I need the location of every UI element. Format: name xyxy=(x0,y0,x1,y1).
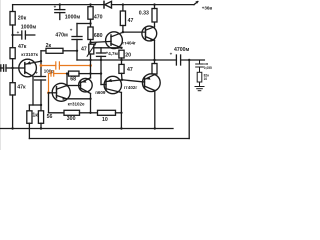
node 100p left xyxy=(40,64,43,67)
capacitor 1000m left xyxy=(13,30,35,39)
resistor 470 xyxy=(88,5,93,27)
node mid vertical xyxy=(100,72,102,74)
svg-text:1к: 1к xyxy=(32,113,38,119)
resistor 68 xyxy=(69,71,91,76)
wire base VT5 xyxy=(101,84,106,86)
svg-text:47к: 47к xyxy=(17,85,26,91)
wire emitter node vertical xyxy=(40,51,42,77)
capacitor 100p second xyxy=(49,71,68,93)
transistor VT3 kt3102e xyxy=(52,83,70,101)
node output rail r20 xyxy=(120,59,122,61)
wire mid node down xyxy=(100,60,102,85)
svg-text:100p: 100p xyxy=(44,68,55,73)
wire emitter VT3 xyxy=(67,98,91,100)
svg-text:56: 56 xyxy=(47,114,53,120)
wire collector VT4 down xyxy=(90,94,92,113)
ground symbol xyxy=(195,87,204,91)
capacitor input xyxy=(4,65,13,71)
zobel network xyxy=(196,60,204,87)
resistor 20k xyxy=(10,5,15,48)
svg-text:+: + xyxy=(17,30,20,35)
transistor VT6 gt404g right xyxy=(142,26,157,42)
svg-text:п609: п609 xyxy=(95,90,106,95)
node collector VT2 xyxy=(122,31,124,33)
svg-text:1000м: 1000м xyxy=(21,24,37,30)
node gnd 56 xyxy=(40,127,42,129)
wire collector VT6 xyxy=(154,22,156,27)
transistor VT7 gt402g right xyxy=(142,74,160,92)
diode VD1 xyxy=(104,1,112,8)
svg-text:300: 300 xyxy=(67,116,76,122)
node emitter VT5 xyxy=(121,79,123,81)
svg-text:47: 47 xyxy=(128,18,134,24)
trimmer 47 xyxy=(87,43,96,60)
wire base VT2 xyxy=(91,41,112,42)
node emitter VT1 xyxy=(40,60,42,62)
supply arrow +36v xyxy=(194,1,199,5)
node collector VT3 xyxy=(66,84,68,86)
wire top rail right segment xyxy=(112,4,195,6)
wire emitter VT6 xyxy=(154,40,156,60)
svg-text:кт3107к: кт3107к xyxy=(21,52,38,57)
wire wiper xyxy=(94,47,122,49)
node bias top xyxy=(11,34,13,36)
svg-text:+: + xyxy=(54,5,57,10)
node gnd VT5 xyxy=(120,127,122,129)
svg-text:1000м: 1000м xyxy=(65,14,81,20)
resistor 47 driver xyxy=(120,5,125,32)
capacitor 470m xyxy=(70,24,91,61)
wire comp down xyxy=(48,93,50,113)
node 0.33 top xyxy=(153,3,155,5)
node output cap xyxy=(188,59,190,61)
wire collector VT3 up xyxy=(66,74,68,86)
svg-text:470: 470 xyxy=(94,15,103,21)
node base VT1 xyxy=(11,67,13,69)
resistor 300 xyxy=(49,110,91,115)
wire r1k top xyxy=(28,105,30,111)
resistor 47k lower xyxy=(10,68,15,129)
svg-text:20к: 20к xyxy=(18,16,27,22)
wire base VT6 xyxy=(123,31,146,33)
svg-text:4,7м: 4,7м xyxy=(108,51,118,56)
node emitter VT3 join xyxy=(89,98,91,100)
svg-text:+: + xyxy=(70,27,73,32)
node r56 top xyxy=(40,104,42,106)
wire collector VT1 vertical xyxy=(32,76,34,105)
resistor emitter output xyxy=(152,60,157,74)
node 470m tap xyxy=(89,22,91,24)
svg-text:20: 20 xyxy=(125,52,131,58)
capacitor 4700m xyxy=(170,51,205,65)
resistor 1k xyxy=(27,111,32,129)
ground rail 2 xyxy=(29,60,189,139)
wire collector VT5 down xyxy=(120,93,122,129)
resistor 47 lower xyxy=(119,64,124,79)
resistor 20 xyxy=(119,50,124,64)
wire emitter VT4 up xyxy=(90,74,92,78)
svg-text:0.33: 0.33 xyxy=(139,10,149,16)
capacitor 4.7m xyxy=(97,48,109,60)
node gnd 47k xyxy=(11,127,13,129)
capacitor 1000m top xyxy=(54,5,65,20)
node comp base xyxy=(47,91,50,94)
resistor 47k upper xyxy=(10,48,15,68)
resistor 56 xyxy=(38,111,43,129)
node 2k 470m xyxy=(76,50,78,52)
svg-text:+36в: +36в xyxy=(202,5,213,10)
svg-text:4700м: 4700м xyxy=(174,47,190,53)
resistor 680 xyxy=(88,27,93,44)
scan edge artifact xyxy=(0,0,2,150)
svg-text:47к: 47к xyxy=(18,44,27,50)
node gnd VT7 xyxy=(154,127,156,129)
wire node link xyxy=(29,104,41,106)
input terminal xyxy=(0,67,4,69)
wire base VT3 xyxy=(49,92,57,94)
node trimmer bottom xyxy=(89,59,91,61)
transistor VT2 gt404g left xyxy=(106,32,123,49)
wire emitter VT7 xyxy=(154,73,156,76)
node bias driver xyxy=(89,41,91,43)
svg-text:47: 47 xyxy=(127,67,133,73)
wire 100p feedback xyxy=(41,62,91,69)
resistor 10 xyxy=(91,110,122,115)
wire bias vertical xyxy=(90,60,92,74)
ground rail 1 xyxy=(0,128,173,130)
wire top rail left segment xyxy=(13,4,104,6)
transistor VT1 kt3107k xyxy=(19,59,41,77)
output rail xyxy=(77,59,176,61)
svg-text:гт402г: гт402г xyxy=(124,85,138,90)
wire node link mid xyxy=(91,73,102,75)
node output rail xyxy=(153,59,155,61)
node 100p right xyxy=(89,64,92,67)
node 470 top xyxy=(89,3,91,5)
capacitor 4m emitter bypass xyxy=(35,71,46,111)
svg-text:2к: 2к xyxy=(46,43,52,49)
node r68 left xyxy=(66,72,68,74)
svg-text:кт3102е: кт3102е xyxy=(68,101,85,106)
resistor 0.33 xyxy=(152,5,157,22)
transistor VT5 gt402g left xyxy=(104,76,122,93)
svg-text:680: 680 xyxy=(94,33,103,39)
node emitter VT2 xyxy=(120,47,122,49)
wire base VT4 xyxy=(67,85,81,87)
svg-text:10: 10 xyxy=(204,77,208,81)
wire base VT1 xyxy=(13,67,25,69)
node r300 r10 xyxy=(89,112,91,114)
svg-text:47: 47 xyxy=(81,46,87,52)
node output mid xyxy=(89,72,91,74)
resistor 2k xyxy=(41,48,77,53)
svg-text:+: + xyxy=(170,51,173,56)
wire base VT7 xyxy=(122,80,145,82)
transistor VT4 p609 xyxy=(79,78,93,94)
svg-text:0,055: 0,055 xyxy=(204,66,212,70)
node 47 top xyxy=(122,3,124,5)
svg-text:10: 10 xyxy=(102,117,108,123)
node r10 right xyxy=(120,112,122,114)
svg-text:68: 68 xyxy=(70,77,76,83)
node 4.7m bottom xyxy=(100,59,102,61)
svg-text:гт404г: гт404г xyxy=(122,41,136,46)
svg-text:+: + xyxy=(35,71,38,76)
node 1000m top xyxy=(59,3,61,5)
svg-text:470м: 470м xyxy=(55,32,68,38)
wire collector VT7 down xyxy=(154,91,156,129)
